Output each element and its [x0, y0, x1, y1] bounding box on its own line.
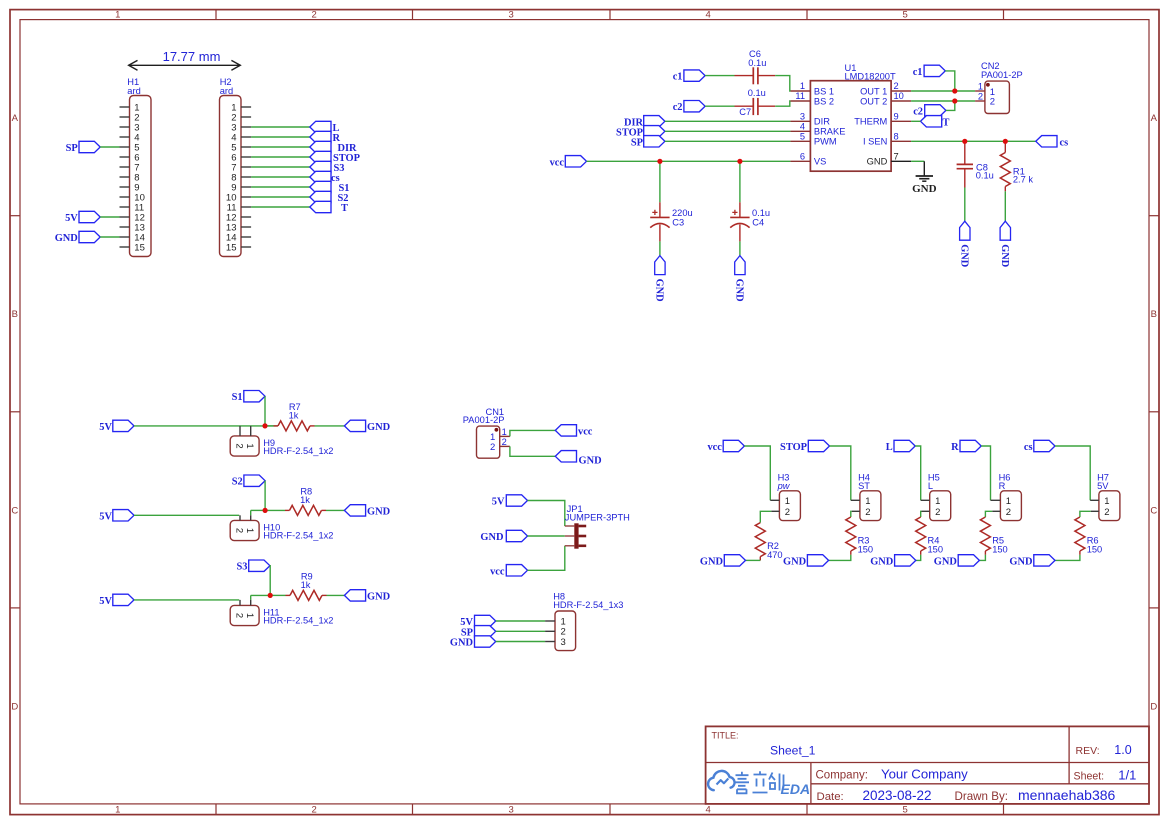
svg-text:EDA: EDA — [781, 781, 811, 797]
svg-text:5V: 5V — [65, 213, 78, 224]
dimension annotation 17.77 mm — [128, 49, 240, 70]
svg-text:3: 3 — [561, 637, 566, 648]
resistor R9 1k — [286, 572, 327, 601]
wire — [496, 641, 545, 643]
svg-text:D: D — [11, 701, 18, 712]
wire — [1055, 446, 1090, 500]
wire — [705, 105, 734, 107]
wire — [100, 146, 119, 148]
svg-text:cs: cs — [1024, 442, 1033, 453]
svg-text:BRAKE: BRAKE — [814, 127, 846, 137]
net flag c1 — [673, 70, 705, 83]
svg-text:Your Company: Your Company — [881, 767, 968, 782]
wire — [911, 100, 975, 102]
net flag SP — [631, 136, 665, 149]
svg-text:2: 2 — [935, 507, 940, 518]
svg-text:150: 150 — [1087, 545, 1103, 555]
wire — [964, 188, 966, 222]
svg-text:1k: 1k — [300, 495, 310, 505]
svg-text:1/1: 1/1 — [1118, 768, 1136, 783]
svg-text:150: 150 — [928, 545, 944, 555]
svg-text:VS: VS — [814, 157, 826, 167]
capacitor C6 0.1u — [735, 49, 776, 84]
svg-text:0.1u: 0.1u — [748, 58, 766, 68]
svg-text:TITLE:: TITLE: — [712, 731, 739, 741]
wire — [746, 559, 761, 561]
capacitor C8 0.1u — [957, 141, 994, 187]
svg-text:A: A — [12, 113, 19, 124]
net flag GND — [783, 555, 829, 568]
svg-text:pw: pw — [777, 481, 791, 491]
junction — [952, 98, 957, 103]
net flag vcc — [490, 565, 527, 578]
svg-text:4: 4 — [800, 122, 805, 132]
wire — [251, 196, 310, 198]
svg-text:1: 1 — [1006, 496, 1011, 507]
net flag c1 — [913, 65, 946, 78]
wire — [911, 90, 975, 92]
wire — [1055, 555, 1080, 561]
svg-text:vcc: vcc — [550, 157, 565, 168]
net flag T — [310, 201, 348, 214]
svg-text:L: L — [928, 481, 933, 491]
wire — [510, 430, 555, 436]
net flag R — [951, 440, 981, 453]
svg-text:S3: S3 — [237, 562, 248, 573]
svg-text:4: 4 — [706, 805, 711, 816]
svg-text:4: 4 — [706, 10, 711, 21]
junction — [952, 88, 957, 93]
power flag GND — [734, 256, 746, 302]
junction — [262, 423, 267, 428]
svg-text:2: 2 — [233, 443, 244, 448]
svg-text:15: 15 — [134, 242, 145, 253]
net flag GND — [870, 555, 916, 568]
junction — [1003, 139, 1008, 144]
net flag cs — [310, 171, 340, 184]
svg-text:2: 2 — [1104, 507, 1109, 518]
svg-text:1: 1 — [502, 427, 507, 437]
svg-text:C7: C7 — [739, 107, 751, 117]
wire — [775, 101, 790, 106]
junction — [268, 593, 273, 598]
svg-text:vcc: vcc — [578, 426, 593, 437]
wire — [327, 594, 345, 596]
svg-text:2: 2 — [978, 91, 983, 101]
svg-text:2: 2 — [312, 10, 317, 21]
svg-text:JUMPER-3PTH: JUMPER-3PTH — [565, 513, 630, 523]
junction — [657, 159, 662, 164]
wire — [510, 446, 555, 456]
svg-text:5: 5 — [903, 805, 908, 816]
svg-text:HDR-F-2.54_1x2: HDR-F-2.54_1x2 — [263, 531, 333, 541]
net flag T — [921, 116, 950, 129]
svg-text:PA001-2P: PA001-2P — [981, 70, 1023, 80]
wire — [251, 206, 310, 208]
svg-text:C4: C4 — [752, 218, 764, 228]
wire — [945, 71, 955, 91]
svg-text:10: 10 — [894, 91, 904, 101]
svg-text:5: 5 — [903, 10, 908, 21]
svg-text:I SEN: I SEN — [863, 137, 887, 147]
junction — [737, 159, 742, 164]
capacitor C3 220u — [650, 202, 692, 241]
wire — [985, 511, 992, 517]
svg-text:SP: SP — [631, 137, 644, 148]
wire — [326, 509, 344, 511]
svg-text:C: C — [1150, 505, 1157, 516]
resistor R7 1k — [274, 402, 315, 431]
svg-text:3: 3 — [509, 805, 514, 816]
svg-text:GND: GND — [367, 422, 390, 433]
svg-text:R: R — [999, 481, 1006, 491]
net flag GND — [480, 530, 527, 543]
svg-text:1k: 1k — [289, 411, 299, 421]
svg-text:17.77 mm: 17.77 mm — [163, 49, 221, 64]
wire — [315, 425, 345, 427]
power flag GND — [959, 221, 971, 267]
net flag S1 — [232, 391, 265, 404]
net flag DIR — [624, 116, 665, 129]
svg-text:2.7 k: 2.7 k — [1013, 175, 1034, 185]
wire — [850, 511, 853, 517]
wire — [760, 511, 771, 522]
net flag GND — [344, 420, 390, 433]
connector H11 HDR-F-2.54_1x2 — [230, 600, 333, 626]
svg-text:2: 2 — [785, 507, 790, 518]
svg-text:1: 1 — [244, 528, 255, 533]
wire — [251, 594, 271, 596]
wire — [100, 216, 119, 218]
svg-text:1: 1 — [978, 81, 983, 91]
svg-text:ST: ST — [858, 481, 870, 491]
svg-text:SP: SP — [66, 143, 79, 154]
wire — [496, 620, 545, 622]
svg-text:c2: c2 — [673, 102, 683, 113]
junction — [263, 508, 268, 513]
svg-text:150: 150 — [858, 545, 874, 555]
svg-text:1k: 1k — [301, 580, 311, 590]
net flag S3 — [237, 560, 270, 573]
net flag SP — [66, 141, 101, 154]
svg-text:1: 1 — [785, 496, 790, 507]
wire — [251, 186, 310, 188]
wire — [251, 509, 265, 511]
svg-text:GND: GND — [999, 244, 1010, 267]
wire — [665, 140, 791, 142]
connector H9 HDR-F-2.54_1x2 — [230, 426, 333, 456]
wire — [981, 446, 990, 500]
svg-text:C3: C3 — [672, 218, 684, 228]
wire — [659, 161, 661, 202]
svg-text:220u: 220u — [672, 208, 693, 218]
net flag c2 — [673, 101, 705, 114]
net flag 5V — [492, 495, 528, 508]
svg-text:mennaehab386: mennaehab386 — [1018, 787, 1116, 803]
svg-text:7: 7 — [894, 152, 899, 162]
net flag 5V — [460, 615, 495, 628]
net flag vcc — [550, 156, 587, 169]
svg-text:5V: 5V — [492, 497, 505, 508]
wire — [915, 446, 921, 500]
wire — [830, 446, 851, 500]
resistor R8 1k — [285, 487, 326, 516]
svg-text:ard: ard — [127, 86, 140, 96]
net flag cs — [1036, 136, 1068, 149]
svg-text:1: 1 — [800, 81, 805, 91]
wire — [946, 101, 955, 110]
net flag GND — [55, 231, 100, 244]
net flag 5V — [99, 510, 134, 523]
wire — [979, 555, 985, 561]
svg-text:2: 2 — [312, 805, 317, 816]
svg-text:Company:: Company: — [816, 770, 868, 782]
svg-text:150: 150 — [992, 545, 1008, 555]
wire — [496, 630, 545, 632]
svg-text:5V: 5V — [99, 511, 112, 522]
wire — [659, 241, 661, 255]
wire — [1080, 511, 1091, 517]
svg-text:GND: GND — [450, 638, 473, 649]
svg-text:C: C — [11, 505, 18, 516]
svg-text:DIR: DIR — [814, 117, 830, 127]
svg-text:5V: 5V — [99, 422, 112, 433]
wire — [744, 446, 770, 500]
svg-text:PWM: PWM — [814, 137, 837, 147]
wire — [911, 140, 1036, 142]
svg-text:STOP: STOP — [780, 442, 808, 453]
svg-text:ard: ard — [220, 86, 233, 96]
svg-text:PA001-2P: PA001-2P — [463, 415, 505, 425]
wire — [250, 595, 252, 600]
net flag vcc — [707, 440, 744, 453]
svg-text:2: 2 — [894, 81, 899, 91]
wire — [705, 75, 734, 77]
svg-text:GND: GND — [959, 244, 970, 267]
svg-text:HDR-F-2.54_1x2: HDR-F-2.54_1x2 — [263, 616, 333, 626]
connector H6 (R) — [991, 473, 1022, 521]
svg-text:BS 2: BS 2 — [814, 96, 834, 106]
title block — [706, 726, 1149, 804]
connector H1 (ard) — [120, 77, 152, 257]
svg-text:GND: GND — [870, 557, 893, 568]
svg-text:OUT 1: OUT 1 — [860, 86, 887, 96]
svg-text:9: 9 — [894, 112, 899, 122]
net flag c2 — [913, 105, 946, 118]
svg-text:Drawn By:: Drawn By: — [955, 790, 1008, 803]
svg-text:B: B — [12, 309, 18, 320]
svg-text:2: 2 — [502, 437, 507, 447]
wire — [911, 160, 924, 162]
wire — [251, 126, 310, 128]
svg-text:1: 1 — [1104, 496, 1109, 507]
svg-text:c1: c1 — [913, 67, 923, 78]
connector H5 (L) — [921, 473, 951, 521]
svg-text:A: A — [1151, 113, 1158, 124]
wire — [739, 161, 741, 202]
wire — [916, 555, 921, 561]
wire — [134, 514, 239, 516]
svg-text:T: T — [943, 118, 950, 129]
net flag R — [310, 131, 341, 144]
svg-text:3: 3 — [800, 112, 805, 122]
svg-text:2023-08-22: 2023-08-22 — [863, 788, 932, 803]
net flag STOP — [616, 126, 665, 139]
svg-text:cs: cs — [1060, 138, 1069, 149]
net flag GND — [344, 590, 390, 603]
net flag cs — [1024, 440, 1055, 453]
wire — [265, 509, 285, 511]
svg-text:D: D — [1150, 701, 1157, 712]
svg-text:2: 2 — [233, 613, 244, 618]
svg-text:3: 3 — [509, 10, 514, 21]
svg-text:GND: GND — [783, 557, 806, 568]
svg-text:1: 1 — [115, 805, 120, 816]
net flag GND — [450, 636, 496, 649]
logo JLC EDA — [708, 771, 810, 797]
svg-text:2: 2 — [990, 97, 995, 108]
svg-text:8: 8 — [894, 132, 899, 142]
svg-text:vcc: vcc — [490, 566, 505, 577]
connector CN1 PA001-2P — [463, 407, 510, 458]
svg-text:vcc: vcc — [707, 442, 722, 453]
wire — [911, 120, 920, 122]
net flag GND — [344, 505, 390, 518]
svg-text:R: R — [951, 442, 959, 453]
junction — [962, 139, 967, 144]
svg-text:GND: GND — [367, 592, 390, 603]
svg-text:1: 1 — [115, 10, 120, 21]
svg-text:0.1u: 0.1u — [976, 171, 994, 181]
capacitor C7 0.1u — [735, 88, 776, 117]
svg-text:2: 2 — [1006, 507, 1011, 518]
connector H3 (pw) — [770, 473, 800, 521]
svg-text:BS 1: BS 1 — [814, 86, 834, 96]
svg-text:HDR-F-2.54_1x2: HDR-F-2.54_1x2 — [263, 446, 333, 456]
connector H8 HDR-F-2.54_1x3 — [545, 592, 623, 651]
wire — [251, 146, 310, 148]
svg-text:Sheet_1: Sheet_1 — [770, 743, 816, 757]
svg-text:REV:: REV: — [1076, 745, 1100, 757]
wire — [739, 241, 741, 255]
svg-text:GND: GND — [867, 157, 888, 167]
power flag GND — [654, 256, 666, 302]
resistor R3 150 — [846, 517, 873, 555]
net flag STOP — [780, 440, 829, 453]
svg-text:HDR-F-2.54_1x3: HDR-F-2.54_1x3 — [553, 600, 623, 610]
wire — [134, 599, 239, 601]
wire — [528, 501, 565, 527]
wire — [251, 136, 310, 138]
net flag S2 — [232, 475, 265, 488]
net flag SP — [461, 626, 496, 639]
wire — [829, 555, 851, 561]
wire — [250, 510, 252, 515]
svg-text:1: 1 — [865, 496, 870, 507]
svg-text:470: 470 — [767, 550, 783, 560]
wire — [265, 425, 274, 427]
svg-text:c2: c2 — [913, 106, 923, 117]
svg-text:1.0: 1.0 — [1114, 743, 1131, 757]
svg-text:GND: GND — [55, 233, 78, 244]
svg-text:OUT 2: OUT 2 — [860, 96, 887, 106]
svg-text:GND: GND — [734, 279, 745, 302]
connector H7 (5V) — [1090, 473, 1120, 521]
op-amp U1 LMD18200T — [790, 63, 911, 171]
net flag L — [886, 440, 915, 453]
svg-text:LMD18200T: LMD18200T — [845, 71, 896, 81]
net flag 5V — [65, 211, 100, 224]
wire — [920, 511, 923, 517]
net flag GND — [555, 451, 601, 467]
svg-text:1: 1 — [244, 613, 255, 618]
svg-text:GND: GND — [367, 507, 390, 518]
svg-text:T: T — [341, 203, 348, 214]
svg-text:0.1u: 0.1u — [752, 208, 770, 218]
resistor R6 150 — [1075, 517, 1102, 555]
wire — [1004, 191, 1006, 221]
svg-text:2: 2 — [233, 528, 244, 533]
jumper JP1 JUMPER-3PTH — [565, 504, 630, 549]
svg-text:GND: GND — [700, 557, 723, 568]
wire — [264, 481, 266, 511]
wire — [251, 166, 310, 168]
net flag S3 — [310, 161, 345, 174]
svg-text:S1: S1 — [232, 392, 243, 403]
svg-text:0.1u: 0.1u — [748, 88, 766, 98]
svg-text:L: L — [886, 442, 893, 453]
svg-text:Sheet:: Sheet: — [1074, 771, 1105, 783]
wire — [665, 120, 791, 122]
wire — [775, 76, 790, 91]
wire — [251, 176, 310, 178]
svg-text:GND: GND — [934, 557, 957, 568]
resistor R4 150 — [916, 517, 943, 555]
svg-text:6: 6 — [800, 152, 805, 162]
power flag GND — [999, 221, 1011, 267]
wire — [264, 396, 266, 426]
net flag S2 — [310, 191, 349, 204]
svg-text:5V: 5V — [1097, 481, 1109, 491]
svg-text:GND: GND — [912, 183, 937, 195]
net flag STOP — [310, 151, 361, 164]
net flag 5V — [99, 420, 134, 433]
svg-text:2: 2 — [490, 442, 495, 453]
net flag S1 — [310, 181, 350, 194]
net flag L — [310, 121, 340, 134]
capacitor C4 0.1u — [730, 202, 770, 241]
svg-text:GND: GND — [579, 455, 602, 466]
wire — [269, 566, 271, 596]
wire — [251, 156, 310, 158]
resistor R2 470 — [755, 523, 782, 561]
connector H4 (ST) — [851, 473, 881, 521]
connector H2 (ard) — [220, 77, 252, 257]
ground — [912, 161, 937, 195]
svg-text:B: B — [1151, 309, 1157, 320]
svg-text:5V: 5V — [99, 596, 112, 607]
svg-text:1: 1 — [935, 496, 940, 507]
wire — [270, 594, 285, 596]
svg-text:GND: GND — [1009, 557, 1032, 568]
svg-text:1: 1 — [244, 443, 255, 448]
svg-text:GND: GND — [654, 279, 665, 302]
net flag vcc — [555, 425, 593, 438]
wire — [528, 535, 565, 537]
net flag DIR — [310, 141, 357, 154]
net flag 5V — [99, 594, 134, 607]
net flag GND — [934, 555, 980, 568]
